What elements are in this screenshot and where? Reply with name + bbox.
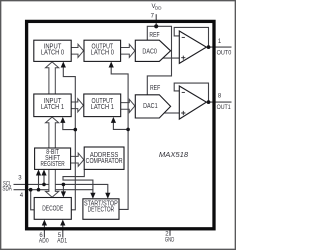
svg-text:LATCH 0: LATCH 0	[41, 49, 64, 56]
svg-text:MAX518: MAX518	[159, 150, 189, 159]
svg-text:AD1: AD1	[57, 239, 68, 245]
svg-text:DETECTOR: DETECTOR	[88, 207, 115, 214]
svg-text:LATCH 1: LATCH 1	[41, 104, 64, 111]
svg-text:OUT1: OUT1	[217, 105, 232, 111]
svg-text:SDA: SDA	[2, 186, 12, 192]
svg-text:AD0: AD0	[39, 239, 49, 245]
svg-text:DAC1: DAC1	[143, 103, 158, 110]
svg-text:REF: REF	[150, 85, 160, 92]
svg-text:DD: DD	[155, 5, 162, 10]
svg-text:REF: REF	[149, 32, 159, 39]
svg-text:LATCH 1: LATCH 1	[91, 104, 114, 111]
svg-text:COMPARATOR: COMPARATOR	[86, 158, 123, 165]
svg-text:GND: GND	[165, 238, 175, 244]
svg-text:OUT0: OUT0	[217, 50, 232, 56]
svg-text:DECODE: DECODE	[42, 206, 63, 213]
svg-text:DAC0: DAC0	[142, 49, 157, 56]
svg-text:LATCH 0: LATCH 0	[91, 49, 114, 56]
svg-text:REGISTER: REGISTER	[41, 161, 65, 168]
